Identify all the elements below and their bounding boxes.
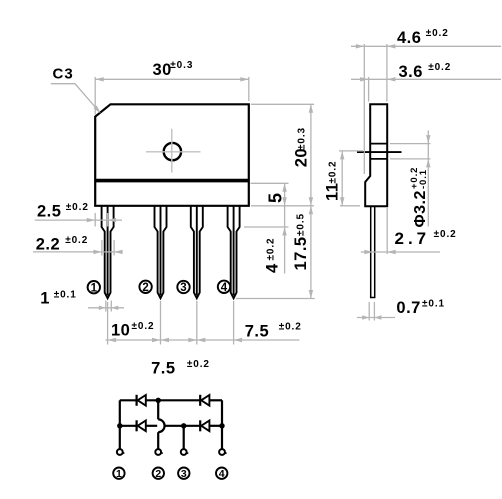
svg-text:±0.2: ±0.2	[279, 322, 302, 333]
dimension 0.7 line	[357, 317, 395, 319]
schematic diode D4	[199, 420, 201, 431]
schematic pin number 4	[216, 468, 227, 479]
pin number label 1 (front view)	[88, 281, 100, 293]
dimension 30 extension line left	[94, 77, 96, 115]
side view hole edge line upper	[370, 143, 387, 145]
pin3 tip extension line	[196, 301, 198, 345]
schematic wire terminal2 vertical with hop	[157, 400, 159, 419]
dimension phi3.2 line	[427, 130, 429, 226]
svg-text:±0.2: ±0.2	[65, 235, 88, 246]
svg-text:±0.2: ±0.2	[434, 229, 457, 240]
dimension 11 ext top	[339, 150, 363, 152]
dimension 2.5 line	[35, 219, 122, 221]
svg-text:±0.2: ±0.2	[327, 161, 338, 184]
dimension 30 extension line right	[248, 77, 250, 101]
hole crosshair horizontal	[146, 151, 201, 153]
svg-text:0.7: 0.7	[396, 299, 420, 317]
schematic junction dot pin3	[181, 423, 186, 428]
dimension 2.7 arrow left	[364, 250, 373, 254]
dimension 20-17.5 shared line	[310, 104, 312, 298]
dimension 1 tick right	[110, 301, 112, 312]
schematic pin number 3	[178, 468, 189, 479]
svg-text:4: 4	[219, 468, 225, 480]
svg-text:±0.2: ±0.2	[426, 28, 449, 39]
schematic junction dot pin4	[219, 423, 224, 428]
dimension 2.7 arrow right	[387, 250, 396, 254]
dimension 2.2 arrow left	[93, 250, 102, 254]
dimension phi3.2 arrow upper	[426, 135, 430, 144]
chamfer leader arrowhead	[93, 105, 100, 113]
svg-text:±0.5: ±0.5	[296, 213, 307, 236]
dimension 3.6 ext left	[368, 77, 370, 102]
svg-text:4: 4	[221, 282, 228, 294]
pin4 tip extension line	[233, 301, 235, 345]
pin pitch dimension line	[106, 339, 300, 341]
pin 4 (front view lead)	[228, 206, 240, 298]
svg-text:30: 30	[153, 61, 172, 79]
pin 2 (front view lead)	[155, 206, 167, 298]
schematic pin number 1	[113, 468, 124, 479]
svg-text:3: 3	[181, 468, 187, 480]
dimension 5 arrow top	[282, 183, 286, 192]
dimension 2.2 tick right	[113, 240, 115, 256]
extension line pin tip right	[236, 298, 315, 300]
svg-text:±0.2: ±0.2	[132, 321, 155, 332]
dimension 3.6 line	[351, 78, 501, 80]
dimension 2.2 tick left	[101, 240, 103, 256]
bridge rectifier body outline (front view)	[95, 104, 249, 206]
dimension 2.5 arrow left	[87, 218, 96, 222]
pitch arrow p4	[234, 338, 243, 342]
dimension 4.6 arrow right	[387, 44, 396, 48]
pin1 tip extension line	[107, 302, 109, 345]
dimension 1 arrow left	[99, 306, 106, 310]
dimension 4 arrow	[282, 227, 286, 236]
extension line body bottom right	[251, 205, 314, 207]
schematic diode D3	[136, 420, 138, 431]
schematic wire terminal1 vertical	[119, 400, 121, 449]
svg-text:10: 10	[111, 321, 130, 339]
extension line body top right	[251, 103, 314, 105]
dimension 11 line	[341, 151, 343, 206]
extension line thick-line right	[251, 182, 289, 184]
schematic terminal 3	[181, 449, 187, 455]
svg-text:±0.3: ±0.3	[170, 60, 193, 71]
svg-text:±0.3: ±0.3	[296, 127, 307, 150]
svg-text:±0.2: ±0.2	[428, 62, 451, 73]
dimension 2.5 arrow right	[108, 218, 117, 222]
svg-text:2: 2	[155, 468, 161, 480]
schematic junction dot pin1	[117, 423, 122, 428]
dimension 11 arrow top	[340, 151, 344, 160]
svg-text:11: 11	[323, 183, 341, 201]
dimension 4.6 arrow left	[356, 44, 365, 48]
dimension 30 arrow right	[240, 77, 249, 81]
svg-text:±0.1: ±0.1	[422, 298, 445, 309]
dimension 4.6 ext left	[363, 44, 365, 174]
pin 1 (front view lead)	[102, 206, 114, 298]
dimension 2.7 ext body corner	[386, 208, 388, 254]
side view body outline	[365, 104, 387, 206]
dimension 2.5 tick body edge	[94, 213, 96, 227]
svg-text:4.6: 4.6	[397, 29, 421, 47]
extension line tab bottom right	[244, 226, 289, 228]
chamfer leader line	[51, 84, 98, 111]
dimension 4.6 ext right	[386, 44, 388, 102]
hole crosshair vertical	[171, 129, 173, 173]
pin number label 2 (front view)	[139, 281, 151, 293]
pitch arrow p2R	[161, 338, 170, 342]
dimension phi3.2 ext lower	[390, 158, 431, 160]
schematic terminal 2	[155, 449, 161, 455]
dimension 11 arrow bottom	[340, 197, 344, 206]
schematic diode D1	[136, 395, 138, 406]
dimension 1 arrow right	[111, 306, 118, 310]
svg-text:17.5: 17.5	[292, 236, 310, 270]
svg-text:1: 1	[91, 282, 98, 294]
svg-text:2: 2	[142, 282, 148, 294]
dimension 30 arrow left	[95, 77, 104, 81]
dimension 4.6 line	[351, 45, 501, 47]
schematic pin number 2	[153, 468, 164, 479]
svg-text:2.2: 2.2	[36, 235, 60, 253]
dimension 30 line	[95, 78, 249, 80]
side view hole edge line lower	[370, 158, 387, 160]
dimension 1 tick left	[105, 301, 107, 312]
schematic junction dot top	[156, 398, 161, 403]
schematic terminal 1	[117, 449, 123, 455]
svg-text:7.5: 7.5	[245, 322, 269, 340]
svg-text:3.6: 3.6	[399, 63, 423, 81]
dimension 5 arrow bottom	[282, 197, 286, 206]
schematic wire terminal4 vertical	[221, 400, 223, 449]
dimension 0.7 arrow right	[374, 315, 381, 319]
pin2 tip extension line	[160, 301, 162, 345]
svg-text:-0.1: -0.1	[418, 169, 429, 189]
schematic terminal 4	[219, 449, 225, 455]
side view pin lead	[371, 206, 375, 297]
dimension 2.2 line	[33, 251, 122, 253]
pin number label 3 (front view)	[177, 281, 189, 293]
svg-text:1: 1	[116, 468, 122, 480]
svg-text:7.5: 7.5	[151, 359, 175, 377]
pin number label 4 (front view)	[218, 281, 230, 293]
svg-text:±0.2: ±0.2	[66, 202, 89, 213]
schematic lower wire	[120, 425, 136, 427]
schematic wire terminal3 vertical	[183, 426, 185, 449]
svg-text:±0.2: ±0.2	[266, 238, 277, 261]
pitch arrow p2L	[152, 338, 161, 342]
dimension 0.7 ext right	[373, 302, 375, 321]
pitch arrow p3L	[188, 338, 197, 342]
svg-text:3: 3	[180, 282, 186, 294]
dimension 17.5 arrow bottom	[309, 290, 313, 299]
svg-text:5: 5	[266, 192, 286, 203]
pitch arrow p1	[108, 338, 117, 342]
dimension 2.7 line	[361, 251, 440, 253]
schematic top wire	[120, 399, 136, 401]
dimension phi3.2 ext upper	[390, 143, 431, 145]
dimension 0.7 arrow left	[362, 315, 369, 319]
dimension 2.5 tick pin center	[107, 213, 109, 227]
svg-text:±0.2: ±0.2	[187, 359, 210, 370]
svg-text:2.5: 2.5	[37, 202, 61, 220]
dimension 11 ext bottom	[340, 205, 360, 207]
svg-text:Φ3.2: Φ3.2	[412, 190, 429, 227]
svg-text:1: 1	[40, 290, 50, 308]
schematic diode D2	[199, 395, 201, 406]
svg-text:4: 4	[264, 263, 282, 273]
dimension 0.7 ext left	[368, 302, 370, 321]
dimension phi3.2 arrow lower	[426, 159, 430, 168]
dimension 17.5 arrow top	[309, 206, 313, 215]
body separator thick line	[95, 179, 249, 183]
dimension 1 line	[88, 307, 124, 309]
dimension 5-4 shared line	[284, 183, 286, 273]
dimension 3.6 arrow left	[360, 77, 369, 81]
side view hole centerline leader	[357, 151, 402, 153]
mounting hole	[164, 143, 181, 160]
pitch arrow p3R	[197, 338, 206, 342]
svg-text:C3: C3	[53, 66, 74, 83]
pin 3 (front view lead)	[191, 206, 203, 298]
svg-text:2.7: 2.7	[395, 229, 431, 248]
dimension 20 arrow bottom	[309, 197, 313, 206]
svg-text:±0.1: ±0.1	[54, 290, 77, 301]
dimension 2.2 arrow right	[114, 250, 123, 254]
dimension 3.6 arrow right	[387, 77, 396, 81]
dimension 20 arrow top	[309, 104, 313, 113]
